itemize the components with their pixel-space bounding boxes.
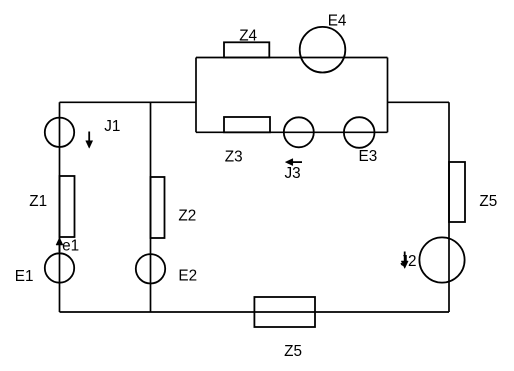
resistor Z5 bottom — [254, 297, 315, 360]
resistor Z4 — [224, 28, 269, 58]
voltage arrow e1 — [56, 237, 79, 254]
svg-text:e1: e1 — [62, 237, 79, 254]
svg-text:Z5: Z5 — [479, 193, 497, 210]
svg-text:Z2: Z2 — [178, 208, 196, 225]
current source J2 — [400, 237, 464, 282]
svg-text:E2: E2 — [178, 268, 197, 285]
svg-text:Z5: Z5 — [284, 343, 302, 360]
voltage source E2 — [136, 254, 197, 285]
wire right horizontal — [388, 101, 450, 103]
wire box right edge — [387, 58, 389, 133]
wire box left edge — [195, 58, 197, 133]
svg-text:Z3: Z3 — [225, 148, 243, 165]
wire left vertical — [59, 102, 61, 312]
svg-text:E4: E4 — [328, 12, 347, 29]
current source J3 — [284, 117, 314, 182]
resistor Z2 — [151, 177, 197, 238]
wire middle vertical — [150, 102, 152, 312]
wire box top edge — [196, 57, 388, 59]
wire right vertical — [448, 102, 450, 312]
svg-text:E1: E1 — [15, 268, 34, 285]
resistor Z5 right — [449, 162, 497, 222]
svg-text:Z4: Z4 — [239, 28, 257, 45]
voltage source E4 — [300, 12, 347, 72]
resistor Z1 — [29, 176, 74, 237]
svg-text:J1: J1 — [104, 118, 120, 135]
wire top-left horizontal — [60, 101, 197, 103]
svg-text:J3: J3 — [285, 165, 301, 182]
current source J1 — [45, 118, 121, 149]
voltage source E3 — [344, 117, 377, 165]
wire bottom horizontal — [60, 311, 450, 313]
svg-text:Z1: Z1 — [29, 193, 47, 210]
resistor Z3 — [224, 117, 270, 165]
voltage source E1 — [15, 253, 74, 285]
svg-text:E3: E3 — [359, 148, 378, 165]
wire box bottom edge — [196, 131, 388, 133]
